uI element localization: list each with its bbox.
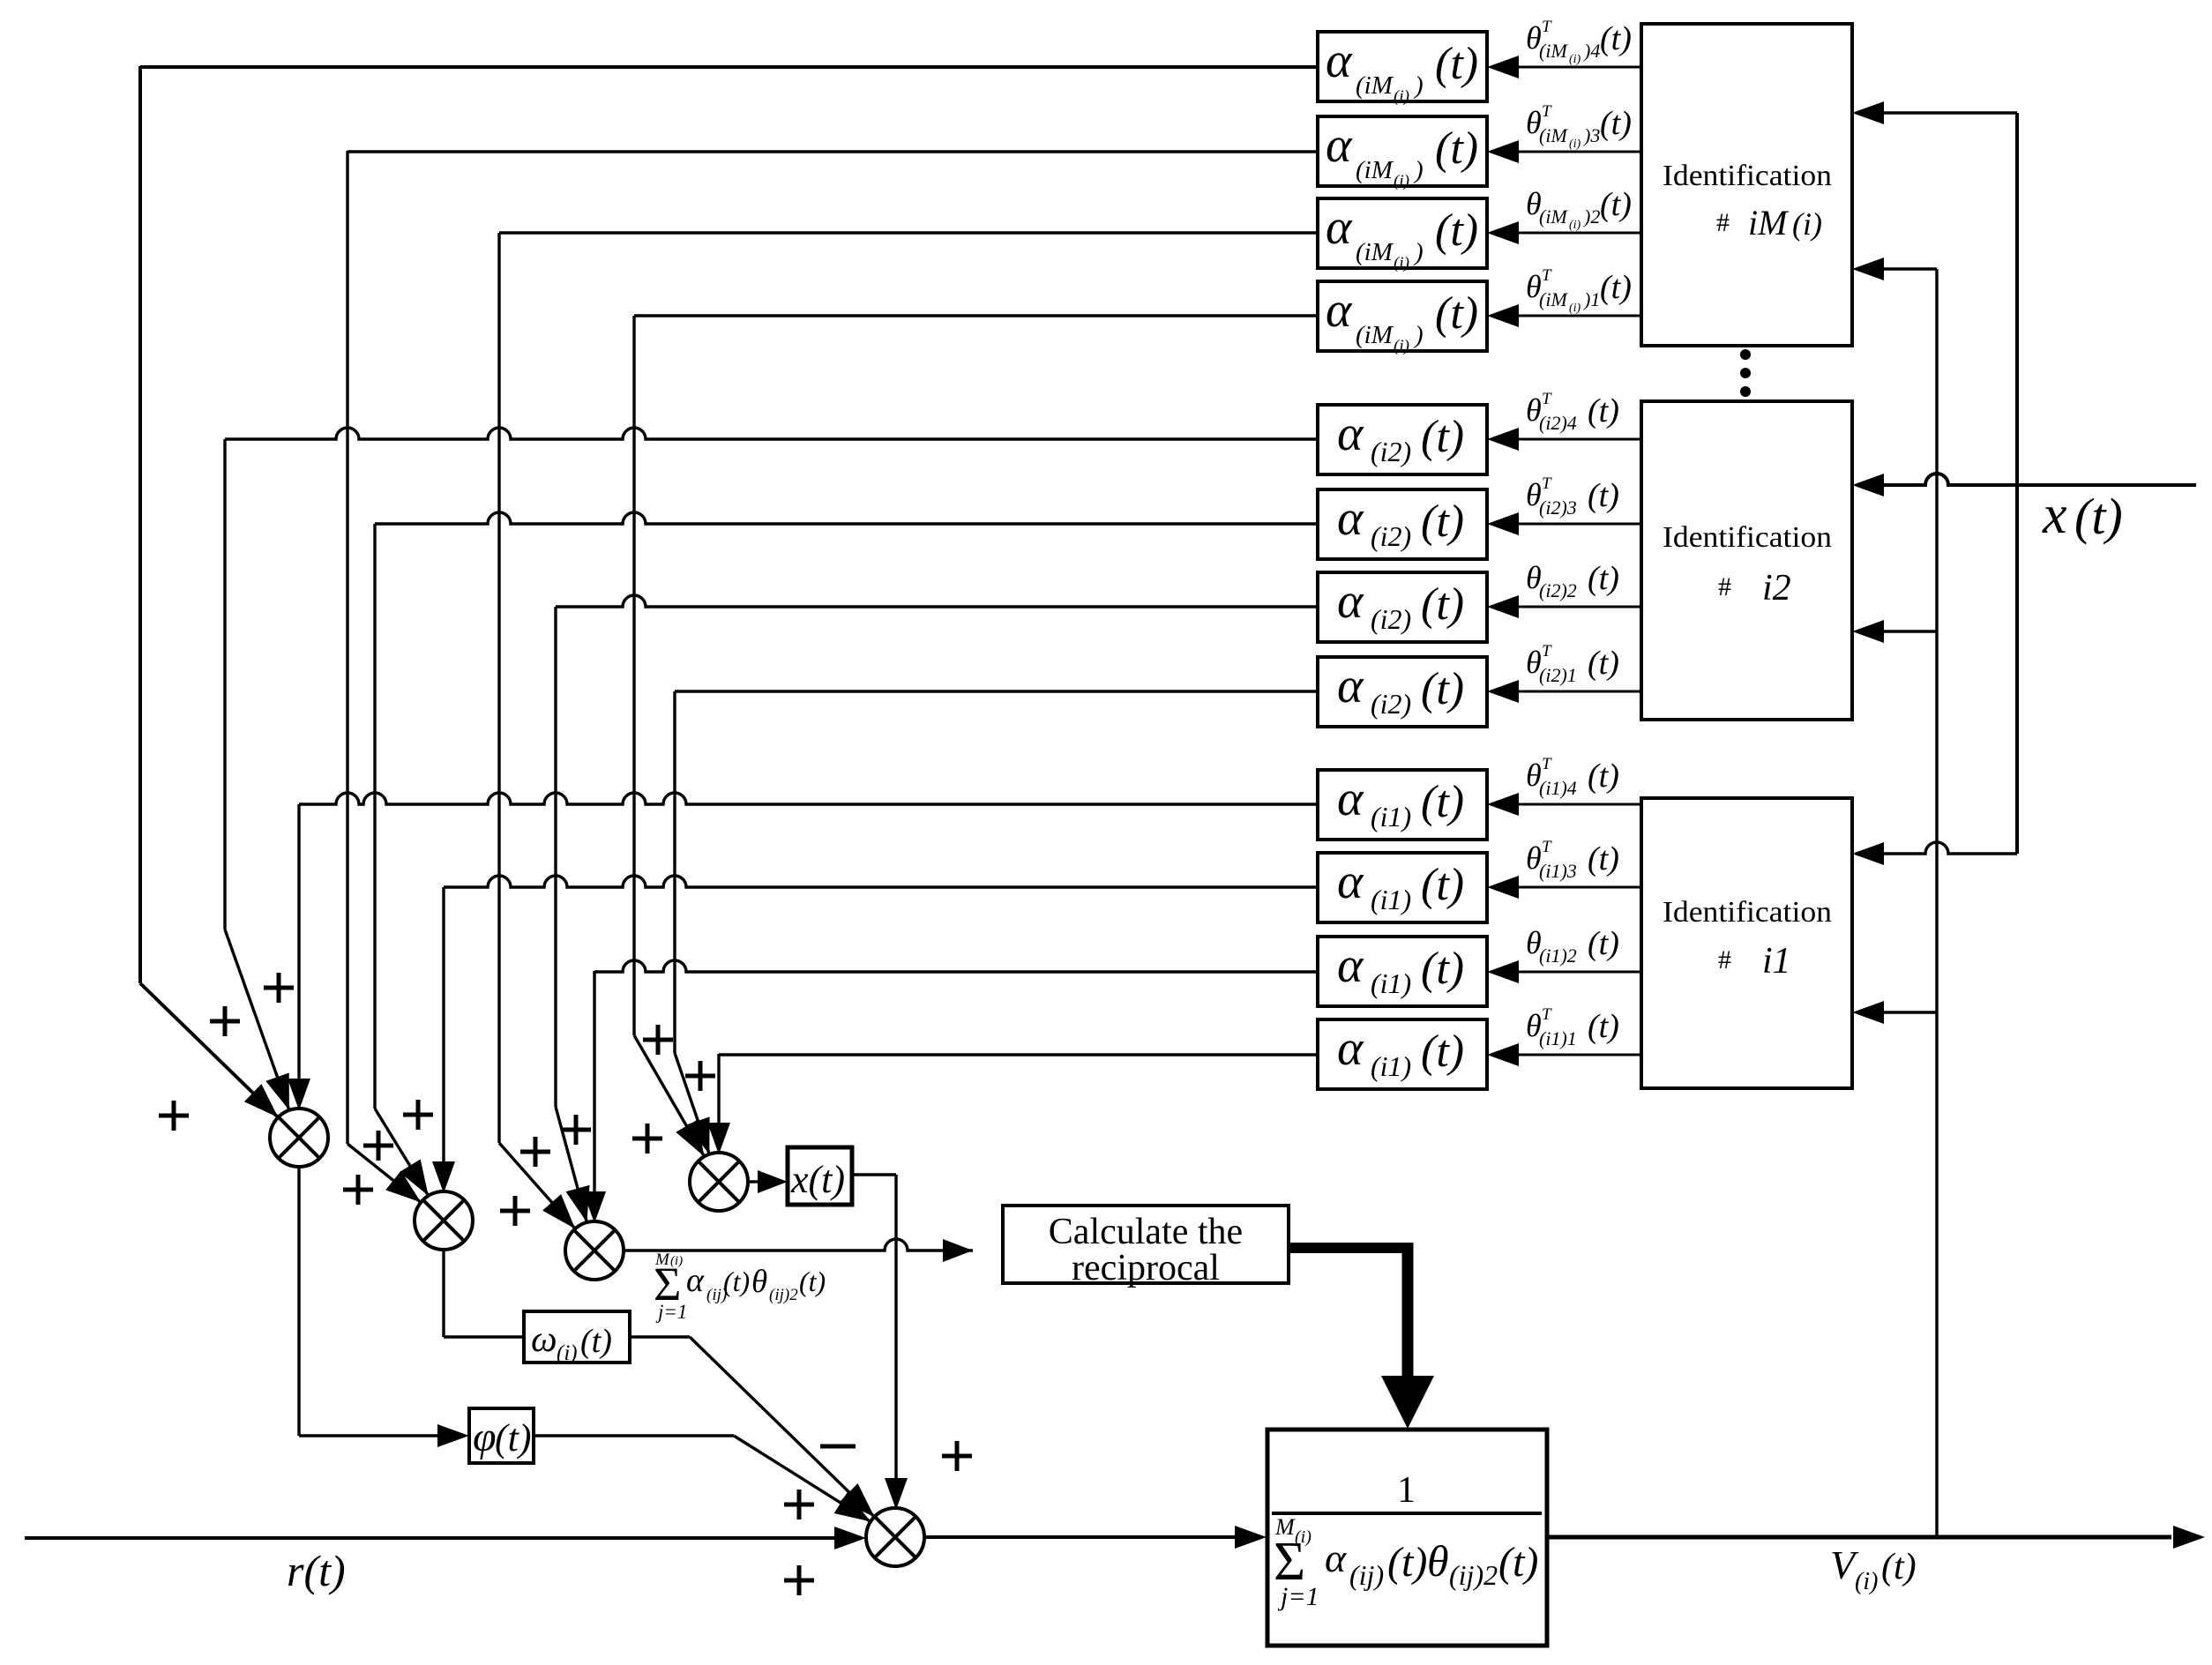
label theta i14 <box>1526 755 1619 799</box>
signs at multiplier M5 inputs <box>784 1441 972 1595</box>
svg-text:(t): (t) <box>1421 944 1464 994</box>
svg-text:(i): (i) <box>1569 302 1581 315</box>
svg-text:j=1: j=1 <box>1277 1582 1319 1611</box>
thick wire reciprocal output down into formula block <box>1289 1243 1434 1429</box>
svg-text:(i): (i) <box>1569 219 1581 232</box>
svg-text:α: α <box>1326 200 1353 255</box>
svg-text:α: α <box>1326 34 1353 88</box>
theta arrow into alpha block iM4 <box>1487 56 1641 78</box>
wire i1-4 vertical into multiplier M1 top <box>288 804 310 1110</box>
wire iM1 vertical drop and diagonal into multiplier M4 <box>634 316 705 1156</box>
svg-text:(i): (i) <box>1792 206 1822 242</box>
svg-text:)4: )4 <box>1582 40 1600 62</box>
svg-text:(i1)4: (i1)4 <box>1539 777 1577 799</box>
svg-text:(i): (i) <box>557 1341 578 1365</box>
svg-text:)3: )3 <box>1582 124 1600 146</box>
wire alpha iM3 output horizontal <box>347 150 1318 153</box>
plus signs at multiplier M1 inputs <box>159 973 294 1131</box>
stub into iM block lower input <box>1852 258 1937 280</box>
svg-text:α: α <box>1325 1535 1347 1580</box>
wire multiplier M4 output into x(t) block <box>748 1170 788 1193</box>
wire i1-2 vertical into multiplier M3 top <box>583 971 606 1223</box>
svg-text:(t): (t) <box>1435 39 1478 89</box>
svg-text:(iM: (iM <box>1539 288 1568 310</box>
wire M5 output into formula block <box>924 1526 1267 1549</box>
svg-text:θ: θ <box>1427 1536 1449 1586</box>
svg-text:(t): (t) <box>1588 645 1619 682</box>
label theta i22 <box>1526 560 1619 601</box>
svg-text:T: T <box>1542 474 1552 493</box>
stub into iM block upper input <box>1852 101 2017 124</box>
wire alpha i1-2 output horizontal <box>594 960 1318 972</box>
svg-text:Identification: Identification <box>1663 896 1832 929</box>
svg-text:(iM: (iM <box>1356 156 1394 184</box>
svg-text:ω: ω <box>531 1319 557 1360</box>
svg-text:(t): (t) <box>1588 1008 1619 1045</box>
label theta i12 <box>1526 925 1619 967</box>
svg-text:(t): (t) <box>723 1266 750 1297</box>
svg-text:α: α <box>1326 283 1353 338</box>
multiplier M1 (circle-cross summing junction) <box>270 1109 328 1167</box>
svg-text:Calculate the: Calculate the <box>1049 1212 1243 1252</box>
svg-text:(t): (t) <box>1387 1539 1427 1586</box>
alpha block iM row 4 <box>1318 32 1487 106</box>
theta arrow into alpha block i14 <box>1487 793 1641 816</box>
svg-text:(i): (i) <box>1394 254 1409 273</box>
alpha block i2 row 1 <box>1318 657 1487 727</box>
stub into i1 block lower input <box>1852 1001 1937 1024</box>
svg-text:(t): (t) <box>1498 1539 1538 1586</box>
svg-text:#: # <box>1718 945 1731 974</box>
alpha block i2 row 3 <box>1318 489 1487 559</box>
wire x(t) feed vertical (outer) <box>2015 113 2019 854</box>
identification block i1 <box>1641 798 1852 1088</box>
svg-text:j=1: j=1 <box>655 1301 687 1323</box>
label sum alpha_(ij)(t)theta_(ij)2(t) under M3 wire <box>654 1251 826 1323</box>
alpha block i1 row 2 <box>1318 937 1487 1006</box>
svg-text:(t): (t) <box>1588 840 1619 877</box>
svg-text:(iM: (iM <box>1356 238 1394 266</box>
multiplier M5 (circle-cross) <box>866 1508 924 1566</box>
svg-text:α: α <box>1337 574 1364 629</box>
svg-text:i2: i2 <box>1762 568 1791 609</box>
multiplier M3 (circle-cross summing junction) <box>565 1221 624 1280</box>
svg-text:(t): (t) <box>1588 560 1619 597</box>
svg-text:(i1): (i1) <box>1371 967 1411 999</box>
wire feedback V(i)(t) vertical (inner) with stubs into identification blocks <box>1935 269 1938 1537</box>
wire alpha i2-1 output horizontal <box>675 690 1318 692</box>
svg-text:(i2)4: (i2)4 <box>1539 412 1577 434</box>
svg-text:(iM: (iM <box>1539 205 1568 228</box>
svg-text:T: T <box>1542 1005 1552 1024</box>
theta arrow into alpha block i11 <box>1487 1043 1641 1066</box>
wire x(t) block output down to multiplier M5 <box>852 1175 908 1510</box>
svg-text:(ij)2: (ij)2 <box>1449 1559 1498 1591</box>
svg-text:Identification: Identification <box>1663 521 1832 554</box>
svg-text:(i1): (i1) <box>1371 1050 1411 1082</box>
label theta iM2 <box>1526 186 1632 232</box>
wire i1-3 vertical into multiplier M2 top <box>432 887 455 1193</box>
alpha block i2 row 2 <box>1318 572 1487 642</box>
multiplier M2 (circle-cross summing junction) <box>415 1191 473 1250</box>
svg-text:(t): (t) <box>1435 123 1478 174</box>
svg-text:(i2): (i2) <box>1371 520 1411 552</box>
label theta i24 <box>1526 390 1619 434</box>
svg-text:(t): (t) <box>1421 777 1464 827</box>
svg-text:): ) <box>1413 71 1424 100</box>
wire x(t) input from right edge (hops inner vertical) <box>1852 474 2196 497</box>
svg-text:α: α <box>686 1262 705 1299</box>
wire alpha iM1 output horizontal <box>634 314 1318 317</box>
svg-text:r(t): r(t) <box>287 1546 346 1595</box>
svg-text:T: T <box>1542 642 1552 661</box>
svg-text:(i2): (i2) <box>1371 436 1411 467</box>
svg-text:(i1): (i1) <box>1371 884 1411 915</box>
svg-text:(i): (i) <box>1855 1568 1878 1595</box>
svg-text:(t): (t) <box>799 1266 826 1297</box>
stub into i1 block upper input (hops inner vertical) <box>1852 842 2017 865</box>
plus signs at multiplier M3 inputs <box>500 1115 591 1226</box>
wire alpha i2-4 output horizontal <box>225 428 1318 439</box>
svg-text:): ) <box>1413 238 1424 266</box>
svg-text:)2: )2 <box>1582 205 1600 228</box>
plus signs at multiplier M4 inputs <box>632 1025 715 1154</box>
svg-text:(t): (t) <box>495 1416 532 1460</box>
svg-text:#: # <box>1716 208 1730 237</box>
svg-text:(i2)1: (i2)1 <box>1539 664 1577 686</box>
svg-text:(i): (i) <box>1394 337 1409 355</box>
svg-text:)1: )1 <box>1582 288 1600 310</box>
svg-text:α: α <box>1337 659 1364 713</box>
svg-text:(t): (t) <box>1600 105 1632 142</box>
svg-text:(t): (t) <box>580 1323 612 1360</box>
svg-text:(t): (t) <box>2074 488 2123 545</box>
wire multiplier M2 output down to omega block <box>444 1250 524 1337</box>
svg-text:#: # <box>1718 572 1731 601</box>
svg-text:iM: iM <box>1748 203 1790 243</box>
svg-text:): ) <box>1413 321 1424 349</box>
stub into i2 block lower input <box>1852 620 1937 643</box>
svg-text:T: T <box>1542 390 1552 408</box>
svg-text:(ij): (ij) <box>1349 1559 1384 1591</box>
alpha block iM row 3 <box>1318 116 1487 190</box>
block Calculate the reciprocal <box>1003 1206 1289 1288</box>
svg-text:T: T <box>1542 18 1552 36</box>
alpha block i1 row 1 <box>1318 1019 1487 1089</box>
wire alpha i2-2 output horizontal <box>556 595 1318 607</box>
label theta i21 <box>1526 642 1619 686</box>
alpha block iM row 2 <box>1318 198 1487 273</box>
wire iM4 vertical drop and diagonal into multiplier M1 <box>140 66 278 1117</box>
wire i2-1 vertical drop and diagonal into multiplier M4 <box>675 691 710 1154</box>
svg-text:α: α <box>1337 855 1364 909</box>
svg-text:Identification: Identification <box>1663 160 1832 192</box>
label theta iM1 <box>1526 266 1632 315</box>
block 1 / sum alpha theta <box>1267 1430 1547 1646</box>
svg-text:1: 1 <box>1397 1470 1416 1511</box>
svg-text:T: T <box>1542 838 1552 856</box>
label theta iM3 <box>1526 102 1632 151</box>
theta arrow into alpha block i22 <box>1487 595 1641 618</box>
wire alpha iM2 output horizontal <box>499 231 1318 234</box>
svg-text:(i2)3: (i2)3 <box>1539 497 1577 519</box>
svg-text:(iM: (iM <box>1539 40 1568 62</box>
wire alpha iM4 output horizontal <box>140 65 1318 69</box>
theta arrow into alpha block iM3 <box>1487 140 1641 163</box>
label r(t) <box>287 1546 346 1595</box>
wire multiplier M3 output to reciprocal block (hops x(t) vertical) <box>624 1239 973 1262</box>
block phi(t) <box>469 1408 534 1463</box>
alpha block i1 row 3 <box>1318 853 1487 922</box>
svg-text:(i): (i) <box>1394 87 1409 106</box>
label theta iM4 <box>1526 18 1632 66</box>
svg-text:(t): (t) <box>1421 1027 1464 1077</box>
svg-text:(ij)2: (ij)2 <box>769 1286 798 1304</box>
identification block i2 <box>1641 401 1852 720</box>
alpha block i2 row 4 <box>1318 405 1487 474</box>
theta arrow into alpha block i23 <box>1487 512 1641 535</box>
svg-text:(t): (t) <box>1600 186 1632 223</box>
svg-text:): ) <box>1413 156 1424 184</box>
alpha block iM row 1 <box>1318 281 1487 355</box>
wire i1-1 vertical into multiplier M4 top <box>707 1054 730 1154</box>
wire iM3 vertical drop and diagonal into multiplier M2 <box>347 151 421 1202</box>
wire iM2 vertical drop and diagonal into multiplier M3 <box>499 233 575 1228</box>
svg-text:T: T <box>1542 266 1552 285</box>
theta arrow into alpha block i12 <box>1487 960 1641 983</box>
theta arrow into alpha block i24 <box>1487 428 1641 451</box>
identification block iM(i) <box>1641 24 1852 346</box>
svg-text:(i): (i) <box>1569 138 1581 151</box>
svg-text:(iM: (iM <box>1356 321 1394 349</box>
svg-text:(t): (t) <box>1588 392 1619 429</box>
block omega_(i)(t) <box>524 1311 630 1365</box>
label theta i13 <box>1526 838 1619 882</box>
wire multiplier M1 output down to phi block <box>299 1167 469 1447</box>
wire r(t) input <box>25 1527 866 1549</box>
svg-text:(t): (t) <box>1421 412 1464 462</box>
svg-text:(t): (t) <box>1881 1547 1917 1587</box>
svg-text:α: α <box>1337 407 1364 461</box>
svg-text:α: α <box>1326 118 1353 173</box>
svg-text:(i): (i) <box>1569 53 1581 66</box>
theta arrow into alpha block iM2 <box>1487 221 1641 244</box>
svg-text:(t): (t) <box>1421 664 1464 714</box>
theta arrow into alpha block iM1 <box>1487 304 1641 327</box>
svg-text:α: α <box>1337 491 1364 546</box>
alpha block i1 row 4 <box>1318 770 1487 840</box>
label theta i23 <box>1526 474 1619 519</box>
svg-text:(iM: (iM <box>1356 71 1394 100</box>
svg-text:T: T <box>1542 755 1552 773</box>
wire alpha i2-3 output horizontal <box>375 512 1318 524</box>
svg-text:reciprocal: reciprocal <box>1072 1248 1220 1288</box>
svg-text:α: α <box>1337 772 1364 826</box>
svg-text:(i): (i) <box>1394 172 1409 190</box>
svg-text:(i2): (i2) <box>1371 688 1411 720</box>
plus signs at multiplier M2 inputs <box>343 1100 433 1205</box>
theta arrow into alpha block i13 <box>1487 876 1641 899</box>
svg-text:φ: φ <box>473 1414 497 1460</box>
svg-text:(iM: (iM <box>1539 124 1568 146</box>
svg-text:i1: i1 <box>1762 941 1791 982</box>
svg-text:(i1): (i1) <box>1371 801 1411 832</box>
svg-text:α: α <box>1337 1021 1364 1076</box>
svg-text:(t): (t) <box>1435 288 1478 339</box>
svg-text:(t): (t) <box>1600 269 1632 306</box>
wire alpha i1-1 output horizontal <box>719 1053 1318 1056</box>
svg-text:(i1)2: (i1)2 <box>1539 944 1577 967</box>
svg-text:(i1)3: (i1)3 <box>1539 860 1577 882</box>
wire phi output to multiplier M5 <box>534 1436 871 1521</box>
vertical dots between blocks <box>1740 349 1751 397</box>
wire alpha i1-4 output horizontal <box>299 793 1318 804</box>
svg-text:T: T <box>1542 102 1552 121</box>
svg-text:α: α <box>1337 938 1364 993</box>
svg-text:(t): (t) <box>1588 925 1619 962</box>
svg-text:(t): (t) <box>1588 477 1619 514</box>
label x(t) input <box>2042 485 2123 545</box>
wire i2-2 vertical drop and diagonal into multiplier M3 <box>556 607 590 1222</box>
svg-text:(t): (t) <box>1435 205 1478 256</box>
svg-text:(t): (t) <box>1421 860 1464 910</box>
wire alpha i1-3 output horizontal <box>444 876 1318 887</box>
wire omega output to multiplier M5 <box>630 1337 874 1517</box>
svg-text:(t): (t) <box>1421 497 1464 547</box>
svg-text:(i1)1: (i1)1 <box>1539 1027 1577 1049</box>
label V_(i)(t) <box>1830 1542 1917 1595</box>
wire system output V(i)(t) <box>1547 1526 2205 1549</box>
theta arrow into alpha block i21 <box>1487 680 1641 703</box>
svg-text:(i2): (i2) <box>1371 603 1411 635</box>
svg-text:(t): (t) <box>1588 758 1619 795</box>
multiplier M4 (circle-cross summing junction) <box>690 1153 748 1211</box>
svg-text:x(t): x(t) <box>790 1158 845 1201</box>
svg-text:x: x <box>2042 485 2067 545</box>
label theta i11 <box>1526 1005 1619 1049</box>
svg-text:(t): (t) <box>1600 20 1632 57</box>
block x(t) <box>788 1147 852 1205</box>
svg-text:(t): (t) <box>1421 579 1464 630</box>
wire i2-4 vertical drop and diagonal into multiplier M1 <box>225 439 289 1110</box>
wire i2-3 vertical drop and diagonal into multiplier M2 <box>375 524 429 1196</box>
svg-text:(i2)2: (i2)2 <box>1539 579 1577 601</box>
svg-text:θ: θ <box>751 1264 767 1300</box>
